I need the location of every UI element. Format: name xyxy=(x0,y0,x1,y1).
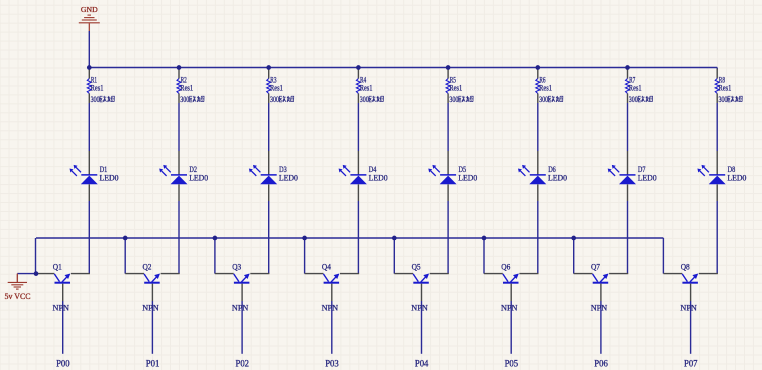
svg-text:NPN: NPN xyxy=(232,302,249,312)
svg-text:LED0: LED0 xyxy=(279,173,298,183)
svg-text:Q2: Q2 xyxy=(143,261,152,271)
svg-text:Res1: Res1 xyxy=(629,83,642,93)
svg-text:P07: P07 xyxy=(684,358,698,368)
svg-text:P03: P03 xyxy=(325,358,339,368)
svg-text:5v VCC: 5v VCC xyxy=(5,292,31,301)
svg-text:Q1: Q1 xyxy=(53,261,62,271)
svg-text:300: 300 xyxy=(629,94,638,104)
svg-text:NPN: NPN xyxy=(322,302,339,312)
svg-text:300: 300 xyxy=(449,94,458,104)
svg-text:Q5: Q5 xyxy=(412,261,421,271)
svg-text:Res1: Res1 xyxy=(270,83,283,93)
svg-text:P00: P00 xyxy=(56,358,70,368)
svg-text:Res1: Res1 xyxy=(360,83,373,93)
svg-text:NPN: NPN xyxy=(53,302,70,312)
svg-text:P05: P05 xyxy=(505,358,519,368)
svg-text:LED0: LED0 xyxy=(727,173,746,183)
svg-text:P02: P02 xyxy=(236,358,250,368)
svg-text:Q3: Q3 xyxy=(232,261,241,271)
svg-text:300: 300 xyxy=(360,94,369,104)
svg-text:300: 300 xyxy=(539,94,548,104)
svg-text:NPN: NPN xyxy=(411,302,428,312)
svg-text:300: 300 xyxy=(180,94,189,104)
svg-text:Res1: Res1 xyxy=(91,83,104,93)
svg-text:P04: P04 xyxy=(415,358,429,368)
svg-text:Q4: Q4 xyxy=(322,261,332,271)
svg-text:LED0: LED0 xyxy=(369,173,388,183)
svg-text:NPN: NPN xyxy=(501,302,518,312)
svg-text:LED0: LED0 xyxy=(100,173,119,183)
svg-text:300: 300 xyxy=(91,94,100,104)
svg-text:Q6: Q6 xyxy=(501,261,511,271)
svg-text:Q8: Q8 xyxy=(681,261,690,271)
svg-text:Res1: Res1 xyxy=(539,83,552,93)
svg-text:Res1: Res1 xyxy=(180,83,193,93)
svg-text:LED0: LED0 xyxy=(458,173,477,183)
svg-text:Res1: Res1 xyxy=(719,83,732,93)
svg-text:LED0: LED0 xyxy=(548,173,567,183)
svg-text:NPN: NPN xyxy=(680,302,697,312)
svg-text:NPN: NPN xyxy=(591,302,608,312)
svg-text:Res1: Res1 xyxy=(449,83,462,93)
svg-text:P06: P06 xyxy=(594,358,608,368)
svg-text:P01: P01 xyxy=(146,358,160,368)
svg-text:Q7: Q7 xyxy=(591,261,601,271)
svg-text:300: 300 xyxy=(719,94,728,104)
svg-text:GND: GND xyxy=(81,5,98,14)
svg-text:300: 300 xyxy=(270,94,279,104)
svg-text:LED0: LED0 xyxy=(638,173,657,183)
svg-text:NPN: NPN xyxy=(142,302,159,312)
svg-text:LED0: LED0 xyxy=(189,173,208,183)
